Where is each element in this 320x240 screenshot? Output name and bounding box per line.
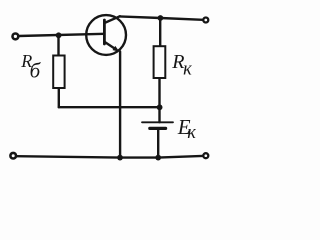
- svg-text:б: б: [30, 58, 42, 82]
- svg-text:к: к: [187, 123, 196, 143]
- svg-text:к: к: [183, 60, 192, 80]
